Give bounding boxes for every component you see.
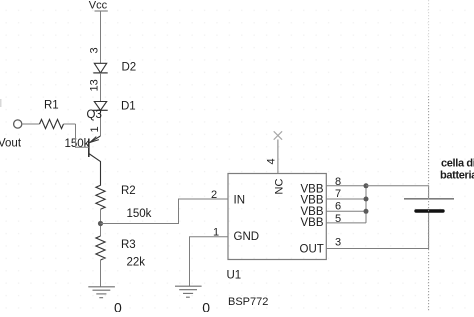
wire Vcc to D2 <box>100 11 102 63</box>
svg-text:3: 3 <box>89 47 101 53</box>
junction dot pin 6 <box>364 209 369 214</box>
svg-text:R1: R1 <box>44 100 59 112</box>
battery cella di batteria <box>404 158 474 212</box>
junction dot pin 7 <box>364 197 369 202</box>
ground (left) <box>88 287 115 298</box>
junction dot pin 8 <box>364 183 369 188</box>
svg-text:D2: D2 <box>122 62 137 74</box>
power Vcc <box>89 0 108 12</box>
wire GND pin <box>190 237 229 286</box>
terminal Vout <box>0 120 22 150</box>
wire D1 to Q3 emitter <box>100 110 102 136</box>
svg-text:2: 2 <box>211 189 217 201</box>
svg-text:3: 3 <box>335 236 341 248</box>
svg-text:VBB: VBB <box>301 195 324 207</box>
svg-text:BSP772: BSP772 <box>228 296 268 308</box>
node divider junction <box>98 221 103 226</box>
svg-text:Vout: Vout <box>0 138 22 150</box>
svg-text:13: 13 <box>89 79 101 91</box>
svg-text:22k: 22k <box>127 257 146 269</box>
wire R2 to junction <box>100 209 102 236</box>
wire OUT to battery negative <box>326 212 428 249</box>
svg-text:batteria: batteria <box>440 170 474 182</box>
svg-text:0: 0 <box>202 300 210 313</box>
svg-text:VBB: VBB <box>301 217 324 229</box>
svg-text:VBB: VBB <box>301 183 324 195</box>
svg-text:150k: 150k <box>127 208 152 220</box>
wire VBB bus <box>365 186 367 223</box>
svg-text:VBB: VBB <box>301 206 324 218</box>
svg-text:IN: IN <box>234 195 246 207</box>
wire R3 to ground <box>100 260 102 287</box>
wire pin 8 <box>326 185 366 187</box>
wire pin 7 <box>326 198 366 200</box>
resistor R1 <box>22 100 76 129</box>
svg-text:4: 4 <box>266 158 278 164</box>
diode D2 <box>93 62 136 74</box>
diode D1 <box>93 101 135 113</box>
transistor Q3 <box>87 109 102 186</box>
svg-text:150k: 150k <box>65 138 90 150</box>
wire pin 6 <box>326 210 366 212</box>
svg-text:R3: R3 <box>121 239 136 251</box>
svg-text:U1: U1 <box>227 270 242 282</box>
svg-text:D1: D1 <box>121 101 136 113</box>
wire NC pin 4 <box>277 140 279 174</box>
svg-text:Q3: Q3 <box>87 109 102 121</box>
svg-text:GND: GND <box>234 231 260 243</box>
sheet boundary dashed line <box>428 0 430 312</box>
resistor R3 <box>96 236 136 260</box>
wire D2 to D1 <box>100 73 102 102</box>
no-connect X on pin 4 <box>274 131 282 139</box>
svg-text:0: 0 <box>114 299 122 312</box>
svg-text:Vcc: Vcc <box>89 0 108 12</box>
svg-text:OUT: OUT <box>300 244 324 256</box>
svg-text:cella di: cella di <box>441 158 474 170</box>
wire junction to IN pin <box>101 199 229 224</box>
svg-text:7: 7 <box>335 188 341 200</box>
svg-text:1: 1 <box>89 126 101 132</box>
svg-text:NC: NC <box>274 179 286 195</box>
IC U1 BSP772 <box>227 174 327 309</box>
wire pin 5 <box>326 222 366 224</box>
ground (IC) <box>175 286 202 297</box>
wire bus to battery positive <box>366 186 429 199</box>
resistor R2 <box>96 185 136 209</box>
svg-text:R2: R2 <box>121 185 136 197</box>
wire R1 to Q3 base <box>76 124 89 147</box>
